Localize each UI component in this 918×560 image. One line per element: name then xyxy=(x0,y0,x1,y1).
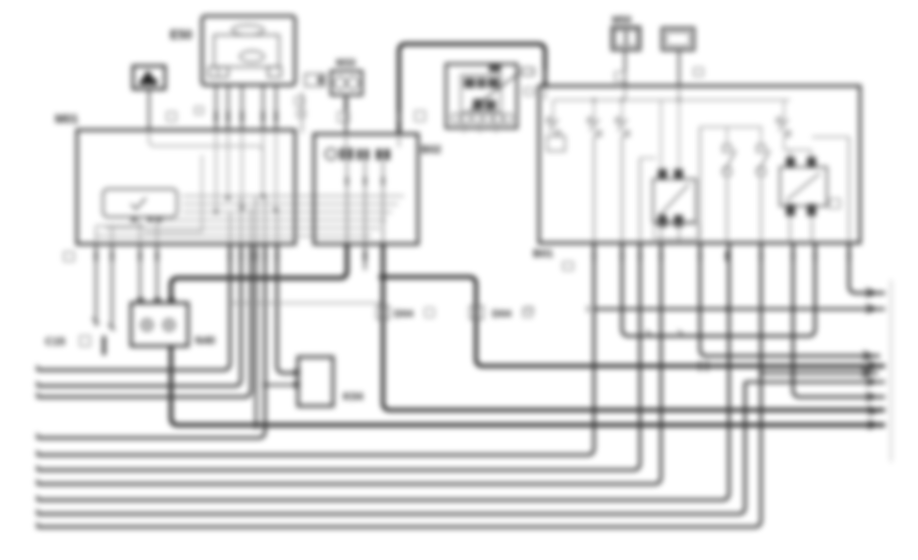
svg-text:M33: M33 xyxy=(336,58,356,69)
svg-text:B01: B01 xyxy=(533,248,553,260)
svg-text:E50: E50 xyxy=(170,28,192,42)
svg-text:C15: C15 xyxy=(45,336,65,348)
svg-text:D04: D04 xyxy=(394,308,413,320)
svg-text:N40: N40 xyxy=(195,335,215,347)
svg-text:K04: K04 xyxy=(343,391,364,403)
svg-text:M50: M50 xyxy=(612,15,632,26)
svg-text:M01: M01 xyxy=(55,112,79,126)
svg-text:D04: D04 xyxy=(492,308,511,320)
svg-text:B02: B02 xyxy=(421,144,441,156)
